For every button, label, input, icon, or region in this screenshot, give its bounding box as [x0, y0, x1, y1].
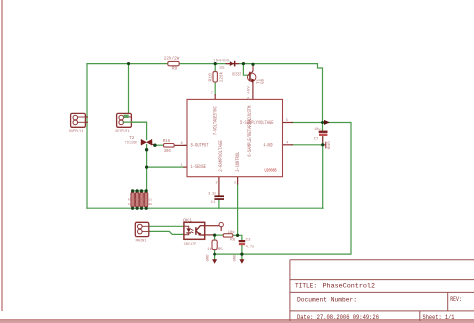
svg-text:U2008B: U2008B [265, 168, 277, 174]
svg-text:GND: GND [205, 254, 209, 261]
svg-text:1R0 1R0 1R0 1R0: 1R0 1R0 1R0 1R0 [128, 203, 152, 206]
svg-text:2: 2 [216, 182, 218, 186]
svg-text:SUPPLY1: SUPPLY1 [69, 130, 84, 134]
svg-text:GB: GB [262, 79, 266, 84]
svg-text:Document Number:: Document Number: [297, 296, 357, 303]
svg-text:5: 5 [286, 119, 288, 123]
svg-text:4-GND: 4-GND [264, 142, 273, 148]
svg-text:REV:: REV: [450, 296, 462, 303]
svg-text:OK1: OK1 [183, 219, 193, 223]
svg-text:5-SUPPLYVOLTAGE: 5-SUPPLYVOLTAGE [240, 120, 274, 126]
svg-text:8-OUTPUT: 8-OUTPUT [191, 142, 209, 148]
svg-text:1-SENSE: 1-SENSE [191, 164, 207, 170]
svg-text:10u: 10u [314, 128, 321, 132]
svg-text:3-CONTROL: 3-CONTROL [235, 152, 241, 172]
svg-text:3.3n: 3.3n [208, 192, 216, 196]
svg-text:22k/2W: 22k/2W [164, 57, 180, 62]
svg-text:C1: C1 [211, 201, 217, 205]
svg-text:R12 R13 R14 R15: R12 R13 R14 R15 [128, 198, 152, 201]
svg-text:MAIN1: MAIN1 [136, 239, 147, 243]
svg-text:R6: R6 [230, 238, 235, 242]
svg-text:7: 7 [211, 92, 213, 96]
svg-text:R10: R10 [209, 72, 213, 81]
svg-text:R9: R9 [172, 67, 178, 71]
svg-text:Date: 27.08.2006 09:49:26: Date: 27.08.2006 09:49:26 [297, 314, 379, 321]
svg-text:6-SAMPLE/RETARDADJUSTM: 6-SAMPLE/RETARDADJUSTM [247, 106, 253, 157]
svg-text:8: 8 [181, 142, 183, 146]
svg-text:D5: D5 [220, 67, 225, 71]
svg-text:C2: C2 [246, 238, 251, 242]
svg-text:R16: R16 [163, 140, 171, 144]
svg-text:6: 6 [247, 98, 249, 102]
svg-text:OUTPUT1: OUTPUT1 [115, 130, 130, 134]
svg-text:4.7u: 4.7u [246, 246, 255, 250]
svg-text:T2: T2 [129, 137, 135, 141]
svg-text:1N4400: 1N4400 [213, 59, 230, 63]
svg-text:2-RAMPVOLTAGE: 2-RAMPVOLTAGE [218, 140, 224, 172]
svg-text:220k: 220k [219, 72, 224, 82]
svg-text:TITLE:: TITLE: [295, 283, 317, 290]
svg-text:Sheet: 1/1: Sheet: 1/1 [423, 314, 455, 321]
svg-text:GND: GND [233, 254, 237, 261]
svg-text:TIC226D: TIC226D [125, 141, 138, 145]
svg-text:GND: GND [326, 141, 330, 149]
svg-text:7-VOLTAGESYNC: 7-VOLTAGESYNC [212, 106, 218, 135]
svg-text:10k: 10k [228, 230, 236, 235]
svg-text:BC557: BC557 [232, 74, 241, 78]
svg-text:PhaseControl2: PhaseControl2 [323, 283, 376, 290]
svg-text:C7: C7 [314, 137, 319, 141]
svg-text:3: 3 [234, 182, 236, 186]
svg-text:+5V: +5V [247, 85, 251, 94]
svg-text:CNY17F: CNY17F [184, 243, 197, 247]
svg-text:1: 1 [181, 164, 183, 168]
svg-text:4: 4 [286, 141, 288, 145]
svg-text:R5: R5 [218, 248, 223, 252]
svg-text:390: 390 [164, 150, 171, 154]
svg-text:1k: 1k [207, 247, 212, 252]
